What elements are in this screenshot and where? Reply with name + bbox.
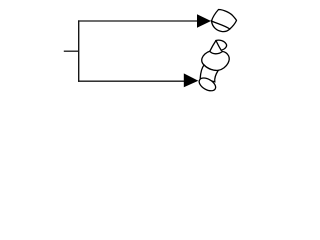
pin head disk (front lens) <box>212 21 230 32</box>
pin cap (small cylinder) body fill <box>210 41 223 57</box>
component icon: top pin (viewed head-on) <box>212 10 237 32</box>
wire: bottom branch <box>78 80 185 82</box>
pin cap silhouette stroke <box>212 10 237 30</box>
pin cap left edge <box>210 41 216 52</box>
wire: top branch <box>78 20 198 22</box>
wire: vertical bracket (junction) <box>78 20 80 82</box>
pin head disk <box>202 51 229 70</box>
pin body tube <box>200 65 218 82</box>
wire: input stub <box>64 50 79 52</box>
arrowhead: top <box>197 14 211 28</box>
component icon: bottom pin (viewed from the side) <box>197 40 229 93</box>
pin cap top ellipse <box>216 40 227 50</box>
pin body bottom cap ellipse <box>197 75 218 93</box>
arrowhead: bottom <box>184 73 199 87</box>
pin cap behind (fill) <box>212 10 237 30</box>
